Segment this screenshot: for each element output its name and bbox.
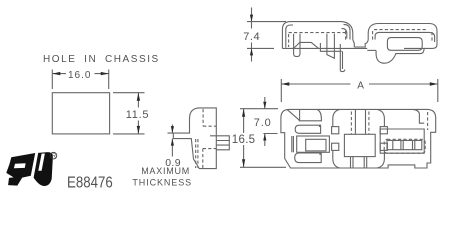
side view: bridge [353,40,368,48]
svg-text:MAXIMUM: MAXIMUM [141,166,190,176]
plan view: center left shoulder lower [333,150,340,168]
dim 7.4 line stubs [251,22,253,49]
svg-text:11.5: 11.5 [126,109,149,121]
dim 7.4 extension lines [247,22,286,49]
plan view: pill bar upper [295,125,320,133]
svg-text:A: A [357,81,364,92]
plan view: square ring outer [297,136,330,152]
dim 7.4 arrows outside [251,8,253,62]
plan view: center right boss lower [380,143,387,150]
hole rectangle [52,93,109,134]
dim 16.5 extension lines [240,109,286,168]
dim A arrows [281,82,438,85]
side view: right hump inner line [375,32,435,42]
plan view: pill bar lower [295,153,322,163]
side view: leg 2 [327,34,335,59]
side view: rib line [319,43,321,48]
side view: center leg [340,44,345,72]
UL recognized mark: U [34,152,53,186]
plan view: center block [344,134,375,156]
dim 11.5 arrows [137,93,140,134]
plan view: right hidden rounded rect [384,139,425,153]
dim 16.5 line + arrows [243,109,245,168]
side view: left hump inner arc left [286,25,293,48]
plan view: hood bottom and corner [299,109,322,120]
profile view (section) outline [173,108,216,169]
plan view: right shoulder [414,110,425,124]
plan view: right hidden vertical [427,112,429,130]
svg-text:7.0: 7.0 [254,117,272,129]
side view: tab back edge [404,47,424,49]
side view: outer outline left hump [282,22,354,49]
dim 11.5 extension lines [113,93,145,134]
dim A extension lines [281,79,438,102]
side view: bottom edge right [367,49,376,51]
svg-text:7.4: 7.4 [243,31,260,43]
dim 16.0 line [52,73,108,75]
profile view tab [210,136,229,150]
dim 11.5 line [137,93,139,134]
plan view: square ring inner [306,139,326,151]
plan view: ladder band [387,140,422,149]
side view: spring trapezoid [294,42,319,48]
plan view: center verticals [355,109,365,134]
side view: bottom edge left [282,47,354,49]
plan view: center hidden verticals [351,112,369,135]
dim 7.0 [263,97,277,146]
dim 16.0 extension lines [52,70,108,90]
plan view: center left shoulder [333,109,340,126]
plan view: hood diagonal [287,109,300,120]
plan view: center right shoulder [377,109,384,126]
svg-text:16.0: 16.0 [68,70,91,81]
UL mark (R) symbol [50,152,57,159]
UL recognized mark: reversed R [6,153,35,186]
plan view: center left boss lower [332,143,339,150]
svg-text:16.5: 16.5 [232,134,256,146]
side view: leg 1 [294,34,300,57]
plan view: right pocket [380,129,424,153]
plan view: center right boss [380,127,387,134]
profile hidden lines [196,109,217,168]
plan view: center block legs [351,157,367,168]
side view: inner window [387,38,422,51]
svg-text:R: R [52,154,57,160]
dim 0.9 arrows [168,125,174,157]
dim A line [281,83,438,85]
plan view: center right shoulder lower [377,150,384,168]
side view: flange lower line [320,48,341,51]
dim 16.0 arrows [52,72,108,75]
side view: left hump inner arc right [342,24,351,39]
side view: hidden inner floor left hump [289,31,346,47]
svg-text:THICKNESS: THICKNESS [132,177,192,187]
side view: right hump outline [368,24,437,49]
svg-text:E88476: E88476 [67,174,113,191]
svg-text:HOLE IN CHASSIS: HOLE IN CHASSIS [43,54,160,65]
plan view outer outline [281,109,436,168]
plan view: square ring left verticals [292,136,294,152]
plan view: center left boss [332,127,339,134]
side view: hidden inset right hump [373,30,432,42]
side view: hanging tab [376,48,424,63]
